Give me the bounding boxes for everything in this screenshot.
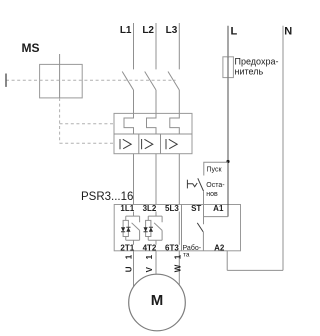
svg-text:1: 1 [145, 254, 154, 259]
svg-text:U: U [124, 266, 133, 272]
svg-text:2T1: 2T1 [120, 243, 134, 252]
svg-text:MS: MS [22, 41, 40, 55]
svg-text:5L3: 5L3 [165, 204, 179, 213]
svg-text:PSR3...16: PSR3...16 [81, 191, 133, 203]
svg-text:4T2: 4T2 [143, 243, 157, 252]
svg-text:Оста-: Оста- [206, 182, 225, 189]
svg-text:L: L [231, 26, 238, 38]
svg-text:M: M [151, 292, 164, 309]
svg-text:L2: L2 [142, 25, 154, 36]
svg-text:A1: A1 [213, 204, 224, 213]
svg-text:Пуск: Пуск [207, 166, 223, 173]
svg-text:L3: L3 [166, 25, 178, 36]
svg-text:1: 1 [124, 254, 133, 259]
svg-text:ST: ST [191, 204, 201, 213]
svg-text:1L1: 1L1 [120, 204, 134, 213]
svg-text:Предохра-: Предохра- [235, 57, 279, 67]
svg-text:V: V [145, 266, 154, 272]
svg-text:та: та [183, 251, 190, 258]
svg-text:W: W [173, 264, 182, 272]
svg-text:нов: нов [206, 191, 218, 198]
svg-text:1: 1 [173, 254, 182, 259]
svg-text:L1: L1 [120, 25, 132, 36]
svg-text:A2: A2 [214, 243, 225, 252]
svg-text:3L2: 3L2 [143, 204, 157, 213]
svg-text:N: N [284, 26, 292, 38]
svg-text:нитель: нитель [235, 67, 264, 77]
svg-text:6T3: 6T3 [165, 243, 179, 252]
